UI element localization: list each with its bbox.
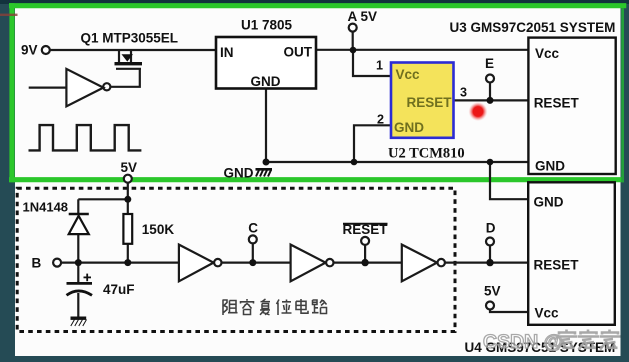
wire node E stub <box>489 82 491 100</box>
svg-text:1N4148: 1N4148 <box>23 200 69 215</box>
svg-text:Q1 MTP3055EL: Q1 MTP3055EL <box>81 31 179 46</box>
junction resistor top <box>124 196 131 203</box>
overline of RESETbar <box>343 223 388 225</box>
svg-text:5V: 5V <box>121 160 138 175</box>
wire U2 pin2 to GND rail <box>354 125 391 162</box>
svg-text:CSDN @: CSDN @ <box>483 331 563 353</box>
wire 5V mid down to resistor top <box>127 183 129 200</box>
terminal B <box>53 259 61 267</box>
svg-text:RESET: RESET <box>407 95 453 110</box>
svg-text:U2 TCM810: U2 TCM810 <box>388 145 465 161</box>
svg-text:A 5V: A 5V <box>348 9 378 24</box>
junction U1 GND <box>263 159 270 166</box>
wire node A down to U2 pin1 <box>353 50 391 76</box>
watermark CSDN @xxx <box>483 330 621 354</box>
wire 9V to U1 IN <box>50 49 216 51</box>
svg-text:D: D <box>486 220 496 235</box>
terminal 5V bottom <box>486 302 494 310</box>
IC U4 GMS97C51 box <box>528 182 615 324</box>
svg-text:1: 1 <box>376 58 383 72</box>
wire diode top lead <box>77 199 79 214</box>
junction pin2 rail <box>351 159 358 166</box>
svg-text:IN: IN <box>220 45 234 60</box>
svg-text:9V: 9V <box>21 43 38 58</box>
terminal E <box>486 75 494 83</box>
wire U3 GND junction down to U4 GND <box>490 162 528 199</box>
svg-text:5V: 5V <box>484 284 501 299</box>
terminal A 5V <box>349 24 357 32</box>
svg-text:Vcc: Vcc <box>535 46 560 61</box>
inverter B <box>291 245 326 282</box>
wire resistor top lead <box>127 199 129 214</box>
inverter C <box>402 245 437 282</box>
red indicator dot <box>469 102 488 121</box>
junction GND/U4 <box>487 159 494 166</box>
svg-text:C: C <box>248 221 258 236</box>
wire node C stub <box>252 243 254 262</box>
char 阻 <box>223 300 238 316</box>
svg-text:OUT: OUT <box>284 44 313 59</box>
char 位 <box>277 300 292 316</box>
inverter A <box>179 245 214 282</box>
svg-text:U3 GMS97C2051 SYSTEM: U3 GMS97C2051 SYSTEM <box>450 20 616 35</box>
IC U3 GMS97C2051 box <box>528 38 615 174</box>
wire U1 OUT to U3 Vcc <box>316 49 528 51</box>
terminal D <box>486 238 494 246</box>
wire node A stub <box>352 31 354 50</box>
wire 5V bottom to U4 Vcc <box>490 310 528 313</box>
capacitor 47uF <box>67 282 93 285</box>
wire B to inverter A <box>61 262 179 264</box>
svg-text:Vcc: Vcc <box>396 67 421 82</box>
resistor 150K <box>123 214 132 244</box>
svg-text:GND: GND <box>535 159 565 174</box>
regulator U1 7805 box <box>216 37 316 89</box>
dashed box around RC reset section <box>17 188 455 331</box>
wire GND rail to U3 GND <box>266 161 529 163</box>
wire inverter input stub <box>29 86 67 88</box>
faint red artifact line top-left <box>0 14 18 16</box>
junction node A <box>350 47 357 54</box>
char 电 <box>296 299 308 313</box>
label RC reset circuit "阻容复位电路" (drawn strokes) <box>223 299 327 315</box>
junction node C <box>249 259 256 266</box>
inverter (gate driver) <box>66 69 103 106</box>
terminal 9V <box>42 46 50 54</box>
ground symbol at U1 GND <box>256 169 273 176</box>
svg-text:B: B <box>32 255 42 270</box>
square wave symbol <box>29 125 142 150</box>
svg-text:Vcc: Vcc <box>535 306 560 321</box>
svg-text:E: E <box>485 56 494 71</box>
terminal RESETbar <box>361 237 369 245</box>
junction node D <box>486 259 493 266</box>
char 路 <box>312 300 327 314</box>
terminal C <box>249 235 257 243</box>
svg-text:47uF: 47uF <box>103 282 135 297</box>
terminal 5V mid <box>124 175 132 183</box>
svg-text:GND: GND <box>224 165 254 180</box>
wire U1 GND down <box>265 89 267 163</box>
wire diode top to resistor top <box>78 198 128 200</box>
transistor Q1 MTP3055EL <box>110 50 141 87</box>
wire cap bottom lead <box>77 293 79 318</box>
svg-text:GND: GND <box>394 120 424 135</box>
wire invB to invC <box>333 262 402 264</box>
wire U2 pin3 to U3 RESET <box>454 99 529 101</box>
junction resistor bottom <box>124 259 131 266</box>
svg-text:3: 3 <box>460 86 467 100</box>
svg-text:GND: GND <box>251 74 281 89</box>
green frame around top section <box>9 3 626 8</box>
wire node RESETbar stub <box>364 245 366 263</box>
diode 1N4148 <box>69 213 89 216</box>
svg-text:150K: 150K <box>142 222 175 237</box>
wire cap top lead <box>77 263 79 284</box>
ground symbol below capacitor <box>71 318 87 326</box>
wire diode bottom lead <box>77 234 79 263</box>
wire node D stub <box>489 246 491 263</box>
IC U2 TCM810 yellow box <box>391 63 454 138</box>
svg-text:2: 2 <box>377 113 384 127</box>
junction pin3/E <box>487 97 494 104</box>
junction diode bottom <box>75 259 82 266</box>
U2 pin labels (olive) <box>394 67 452 135</box>
wire invC to U4 RESET <box>445 262 529 264</box>
wire invA to invB <box>221 262 290 264</box>
svg-text:RESET: RESET <box>534 258 580 273</box>
wire resistor bottom lead <box>127 244 129 263</box>
svg-text:GND: GND <box>534 194 564 209</box>
svg-text:U1 7805: U1 7805 <box>241 18 293 33</box>
junction node RESETbar <box>361 259 368 266</box>
char 复 <box>260 299 270 315</box>
char 容 <box>241 299 254 315</box>
watermark hanzi 宏 x3 (drawn strokes) <box>557 330 621 350</box>
svg-text:RESET: RESET <box>534 96 580 111</box>
